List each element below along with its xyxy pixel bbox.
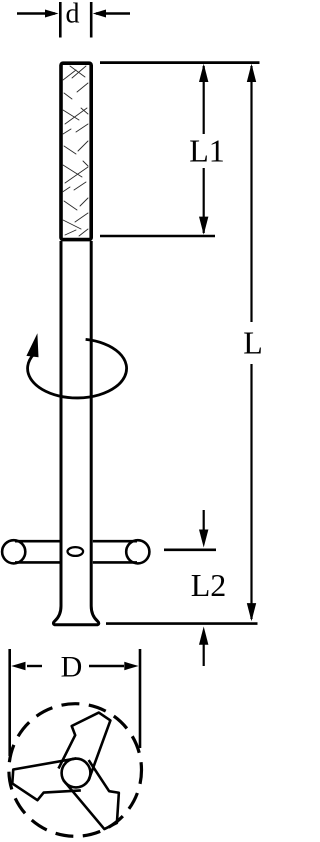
shaft hole ellipse [68, 547, 84, 556]
knurled grip section outline [61, 63, 91, 239]
paddle right end circle [126, 540, 149, 563]
dimension d left extension line [59, 2, 62, 38]
rotation arc around shaft [28, 339, 127, 398]
rotation arrowhead [26, 333, 38, 357]
propeller blade 2 (lower right) [52, 754, 137, 833]
propeller hub circle [62, 759, 91, 788]
paddle top lines [15, 540, 60, 543]
dashed circle (propeller swept diameter) [9, 704, 142, 837]
knurl texture strokes [63, 66, 89, 236]
propeller blade 1 (top) [59, 713, 111, 781]
L dimension line [247, 64, 256, 622]
L1 bottom extension line [100, 235, 215, 238]
paddle left end circle [2, 540, 25, 563]
top extension line (shaft top level) [100, 61, 260, 64]
svg-text:D: D [61, 651, 83, 684]
svg-text:L2: L2 [191, 567, 227, 603]
L2 bottom arrow (pointing up) [199, 627, 208, 667]
L2 top arrow (pointing down) [199, 510, 208, 548]
dimension D left arrow [11, 662, 42, 670]
propeller blade 3 (left) [6, 739, 91, 818]
shaft body with flared foot [53, 241, 98, 625]
L1 dimension line [199, 64, 208, 235]
dimension D right extension line [139, 649, 142, 748]
L2 top extension line [164, 548, 216, 551]
svg-text:d: d [66, 0, 80, 30]
dimension d left arrow [17, 10, 59, 18]
dimension d right extension line [90, 2, 93, 38]
dimension D right arrow [89, 662, 139, 670]
bottom extension line (shaft bottom level) [106, 622, 258, 625]
svg-text:L: L [243, 325, 262, 361]
dimension D left extension line [8, 649, 11, 756]
paddle bottom lines [15, 561, 60, 564]
svg-text:L1: L1 [189, 133, 225, 169]
dimension d right arrow [93, 10, 130, 18]
